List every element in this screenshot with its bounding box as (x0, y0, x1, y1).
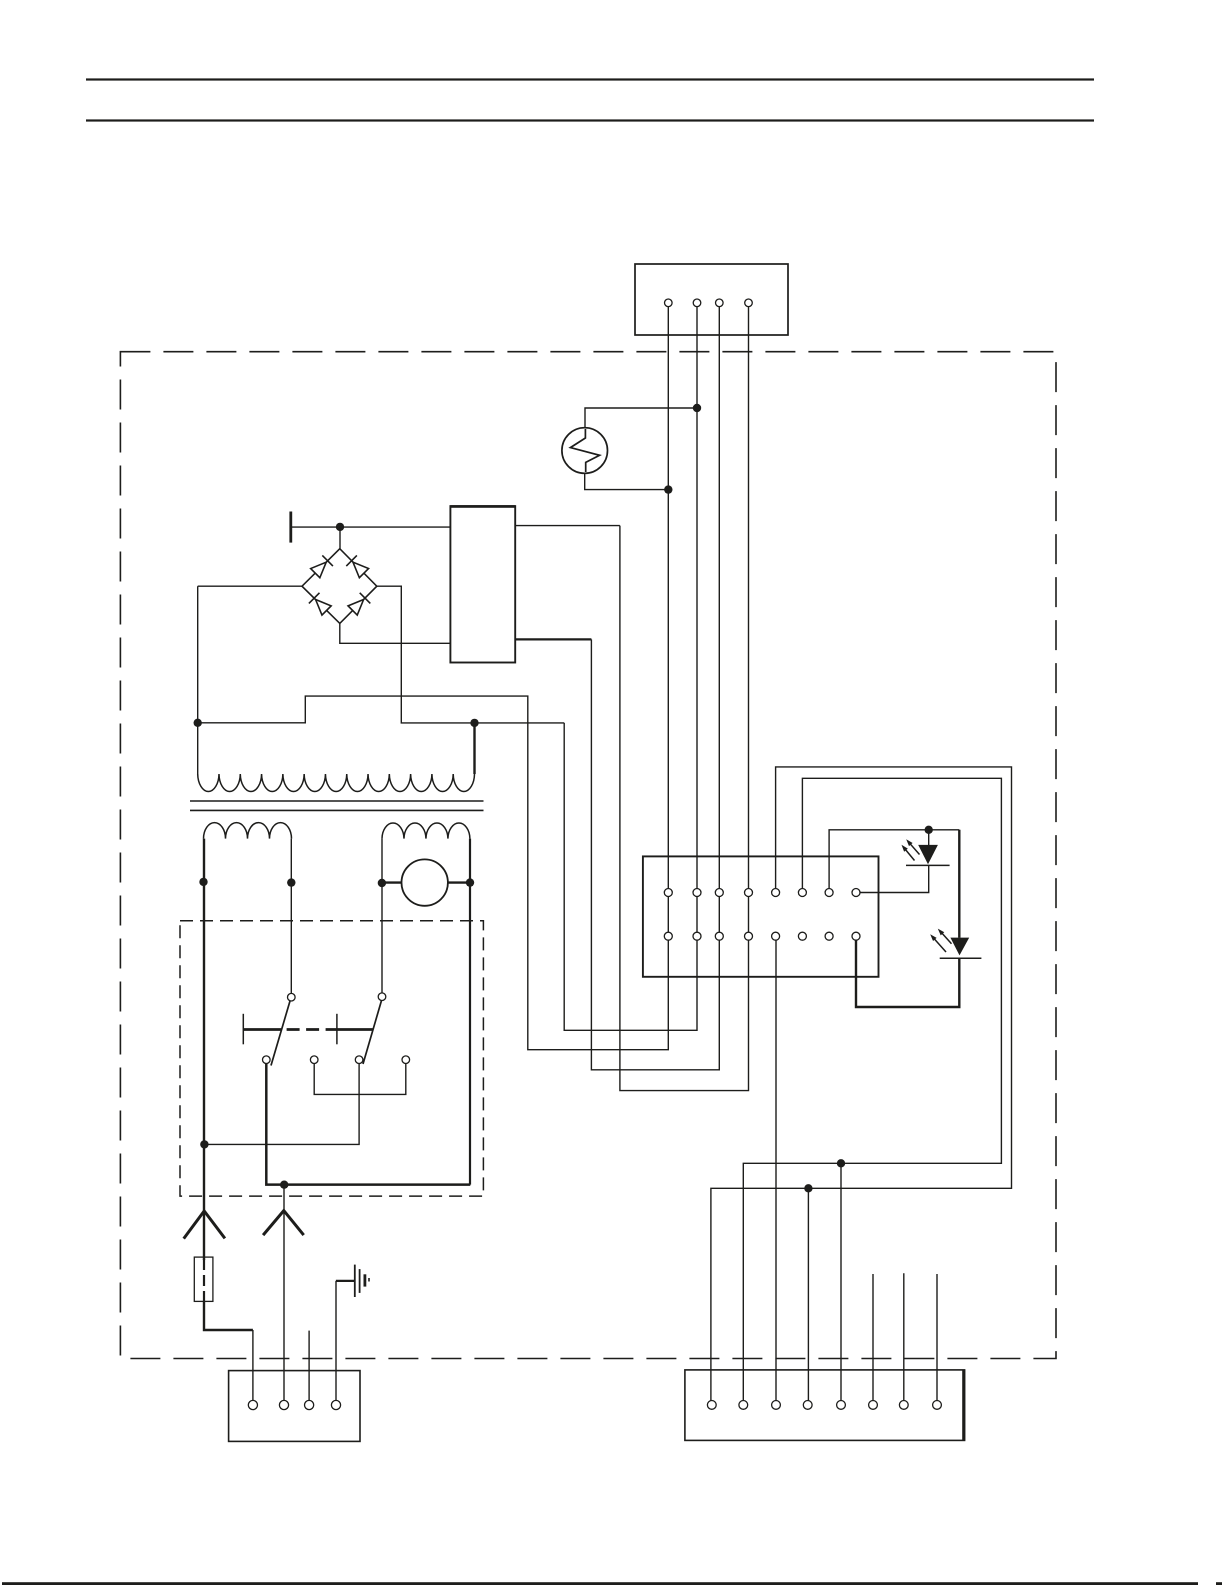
wire primary left lead (197, 586, 199, 774)
wire stub to CN2 pin3 (308, 1331, 310, 1405)
connector CN2 pin 2 (279, 1400, 288, 1409)
wire contact3 down-left to main line (204, 1060, 359, 1145)
wire LED2 anode bus (thick) down from col7 route (958, 830, 960, 938)
terminal block CN3 bottom pin 6 (798, 932, 806, 940)
wire stub to CN4 pin7 (903, 1273, 905, 1405)
junction dot primary-right node (470, 719, 478, 727)
wire LED1 cathode to block pin8 top (860, 865, 929, 892)
wire CN4 pin4 drop (807, 1188, 809, 1405)
wire bridge right vertex over to primary right lead and w2 riser (377, 586, 564, 723)
page bottom rule (2, 1582, 1198, 1585)
connector CN4 pin 2 (739, 1401, 748, 1410)
terminal block CN3 bottom pin 5 (772, 932, 780, 940)
terminal block CN3 top pin 8 (852, 889, 860, 897)
transformer T1 secondary winding 1 (204, 823, 292, 839)
plug prong chevron 2 (thick) (263, 1211, 304, 1236)
terminal block CN3 body (643, 856, 879, 976)
connector CN4 pin 4 (803, 1401, 812, 1410)
terminal block CN3 top pin 2 (693, 889, 701, 897)
connector CN4 pin 5 (837, 1401, 846, 1410)
connector CN1 pin 4 (745, 299, 753, 307)
thermal protector TH1 bolt element (570, 429, 599, 472)
wire primary right lead (thick) (473, 723, 475, 774)
wire main line secondary1 left lead (thick) down to fuse (203, 839, 205, 1260)
diode upper-left of bridge D1 (310, 555, 333, 578)
switch lower contact 4 (402, 1056, 410, 1064)
junction dot w2/thermal top (693, 404, 701, 412)
switch actuator link solid left (thick) (243, 1028, 281, 1031)
thermal protector TH1 (circle) (562, 428, 608, 474)
LED2 cathode bar (940, 957, 982, 959)
wire w4 (CN1 pin4 down to terminal block col4 and riser) (620, 303, 749, 1091)
bridge rectifier D1 diamond (302, 549, 377, 624)
switch actuator right end-bar (336, 1014, 338, 1045)
wire secondary1 right lead down to switch contact (290, 839, 292, 998)
wire secondary2 left lead down to switch contact (381, 839, 383, 997)
diode upper-right of bridge D1 (346, 555, 369, 578)
connector CN1 pin 3 (716, 299, 724, 307)
relay box K1 thick top edge (450, 505, 515, 508)
wire block col7 route to LED bus (829, 830, 959, 889)
LED1 light arrow 2 (906, 839, 919, 854)
LED2 light arrow 2 (938, 929, 952, 944)
switch S1 blade (271, 1001, 290, 1066)
fuse F1 body (194, 1257, 213, 1301)
wire contact2 to contact4 U-link (314, 1060, 406, 1095)
connector CN4 pin 3 (772, 1401, 781, 1410)
wire LED2 cathode thick path to block pin8 bottom (856, 940, 959, 1007)
connector CN4 pin 8 (933, 1401, 942, 1410)
wire plug2 lead down to CN2 pin2 (283, 1185, 285, 1405)
wire bridge bottom vertex to relay left (bottom) (340, 623, 451, 643)
motor M1 left lead (thick) (382, 881, 402, 883)
plug prong chevron 1 (thick) (184, 1211, 225, 1239)
wire stub to CN4 pin6 (872, 1274, 874, 1405)
terminal block CN3 bottom pin 8 (852, 932, 860, 940)
ground bar 1 (354, 1265, 356, 1297)
terminal block CN3 top pin 4 (745, 889, 753, 897)
motor M1 (circle) (402, 859, 448, 905)
terminal block CN3 top pin 5 (772, 889, 780, 897)
terminal block CN3 top pin 1 (664, 889, 672, 897)
junction dot CN4 pin4 tap (804, 1184, 812, 1192)
switch actuator link solid right (thick) (337, 1028, 373, 1031)
wire fuse bottom corner (thick) (204, 1301, 253, 1330)
wire thermal protector top lead to w2 (585, 408, 697, 428)
junction dot motor left (378, 879, 386, 887)
connector CN2 pin 3 (305, 1400, 314, 1409)
junction dot secondary1 left (199, 878, 207, 886)
terminal block CN3 bottom pin 3 (715, 932, 723, 940)
switch lower contact 3 (355, 1056, 363, 1064)
terminal block CN3 top pin 7 (825, 889, 833, 897)
connector CN1 (top) body (635, 264, 788, 335)
connector CN4 (bottom right) body (685, 1370, 965, 1441)
transformer T1 primary winding (198, 774, 475, 792)
ground bar 4 (tiny) (368, 1278, 370, 1282)
wire LED1 anode lead (928, 830, 930, 846)
diode lower-left of bridge D1 (309, 593, 332, 616)
connector CN4 pin 1 (707, 1401, 716, 1410)
connector CN1 pin 2 (693, 299, 701, 307)
connector CN2 (bottom left) body (229, 1371, 360, 1442)
wire bridge left vertex to primary left lead (198, 585, 302, 587)
wire terminal bar to relay left (top) (292, 526, 450, 528)
LED1 light arrow 1 (902, 845, 915, 861)
fuse F1 element (thick dashed) (203, 1259, 205, 1301)
ground bar 2 (359, 1269, 361, 1293)
relay box K1 (450, 506, 515, 662)
junction dot CN4 pin5 tap (837, 1159, 845, 1167)
connector CN4 pin 6 (869, 1401, 878, 1410)
junction dot w1/thermal bottom (664, 485, 672, 493)
switch actuator left end-bar (242, 1014, 244, 1045)
switch upper contact 1 (288, 993, 296, 1001)
junction dot bridge top feed (336, 523, 344, 531)
terminal block CN3 bottom pin 7 (825, 932, 833, 940)
wire stub to CN4 pin8 (936, 1274, 938, 1405)
wire w1 (CN1 pin1 down to terminal block col1 and riser) (198, 303, 669, 1050)
connector CN2 pin 1 (248, 1400, 257, 1409)
wire block col6 route over to right riser and CN4 pin2 (743, 778, 1001, 1405)
connector CN2 pin 4 (331, 1400, 340, 1409)
transformer T1 secondary winding 2 (382, 823, 470, 839)
ground bar 3 (thick short) (363, 1274, 366, 1286)
switch upper contact 2 (378, 993, 386, 1001)
wire w2 (CN1 pin2 down to terminal block col2 and riser) (564, 303, 697, 1030)
wire contact1 thick bus down-right (266, 1060, 470, 1185)
connector CN4 pin 7 (899, 1401, 908, 1410)
junction dot motor right (466, 878, 474, 886)
outer dashed enclosure (appliance boundary) (120, 352, 1056, 1359)
wire bridge top vertex drop (339, 527, 341, 549)
page top rule 2 (86, 119, 1094, 121)
transformer T1 core line 2 (190, 809, 484, 811)
page bottom rule speck (1216, 1582, 1222, 1585)
chassis terminal bar (289, 512, 292, 543)
wire relay right output 1 (thin) (515, 525, 620, 527)
wire thermal protector bottom lead to w1 (585, 473, 669, 489)
diode lower-right of bridge D1 (347, 593, 370, 616)
terminal block CN3 bottom pin 2 (693, 932, 701, 940)
inner dashed box (switch assembly) (180, 921, 483, 1196)
connector CN4 thick right edge (962, 1370, 965, 1441)
switch lower contact 2 (310, 1056, 318, 1064)
switch actuator link dashed middle (thick) (287, 1028, 338, 1031)
LED1 (filled triangle) (918, 845, 938, 864)
wire relay right output 2 (thick) (515, 638, 591, 640)
switch lower contact 1 (263, 1056, 271, 1064)
wire ground drop to CN2 pin4 (335, 1281, 337, 1405)
junction dot thick-bus/plug2 tap (280, 1181, 288, 1189)
LED1 cathode bar (906, 864, 950, 866)
LED2 light arrow 1 (930, 934, 946, 952)
wire CN4 pin5 drop (840, 1163, 842, 1405)
wire secondary2 right lead down to thick bus corner (469, 839, 471, 1185)
page top rule 1 (86, 78, 1094, 80)
junction dot secondary1 right (287, 878, 295, 886)
transformer T1 core line 1 (190, 800, 484, 802)
terminal block CN3 top pin 3 (715, 889, 723, 897)
LED2 (filled triangle) (950, 938, 969, 956)
switch S2 blade (363, 1001, 382, 1065)
junction dot LED1 anode tap (925, 826, 933, 834)
connector CN1 pin 1 (665, 299, 673, 307)
wire w3 (CN1 pin3 down to terminal block col3 and riser) (591, 303, 719, 1070)
motor M1 right lead (thick) (448, 881, 471, 883)
terminal block CN3 bottom pin 4 (745, 932, 753, 940)
junction dot primary-left node (194, 719, 202, 727)
junction dot main-line/contact3 wire (200, 1140, 208, 1148)
wire block col5 bottom straight down to CN4 pin3 (775, 936, 777, 1405)
terminal block CN3 bottom pin 1 (664, 932, 672, 940)
wire CN2 pin1 drop (thin) (252, 1330, 254, 1405)
terminal block CN3 top pin 6 (798, 889, 806, 897)
ground wire horizontal (thick) (336, 1280, 355, 1282)
wire block col5 route over to right riser and CN4 pin1 (711, 767, 1012, 1405)
